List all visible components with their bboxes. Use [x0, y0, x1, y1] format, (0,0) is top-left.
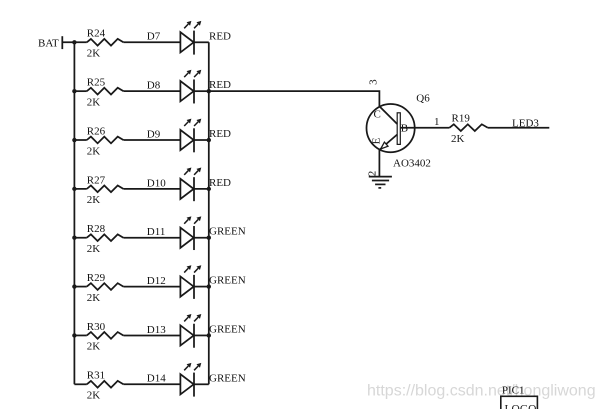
svg-text:D12: D12 — [147, 275, 166, 287]
wire — [378, 150, 380, 177]
svg-text:3: 3 — [367, 79, 379, 85]
LED D7 — [147, 21, 202, 55]
wire — [74, 188, 86, 190]
svg-text:Q6: Q6 — [416, 93, 430, 105]
junction — [72, 333, 76, 337]
svg-text:2K: 2K — [87, 145, 101, 157]
svg-text:GREEN: GREEN — [209, 275, 246, 287]
resistor R25 — [87, 77, 124, 109]
wire — [194, 139, 209, 141]
resistor R30 — [87, 321, 124, 353]
svg-text:D13: D13 — [147, 324, 166, 336]
LED D14 — [147, 363, 202, 397]
junction — [207, 89, 211, 93]
junction — [207, 333, 211, 337]
svg-text:C: C — [374, 109, 381, 121]
svg-text:R27: R27 — [87, 174, 106, 186]
wire — [194, 237, 209, 239]
resistor R28 — [87, 223, 124, 255]
svg-text:LOGO: LOGO — [505, 403, 537, 409]
svg-text:R19: R19 — [452, 112, 471, 124]
svg-text:GREEN: GREEN — [209, 323, 246, 335]
svg-text:RED: RED — [209, 177, 231, 189]
wire — [74, 90, 86, 92]
svg-text:2: 2 — [366, 171, 378, 177]
svg-text:2K: 2K — [87, 96, 101, 108]
svg-text:AO3402: AO3402 — [393, 158, 431, 170]
junction — [72, 138, 76, 142]
wire — [194, 188, 209, 190]
svg-text:2K: 2K — [87, 243, 101, 255]
wire — [123, 90, 180, 92]
junction — [72, 89, 76, 93]
wire — [123, 334, 180, 336]
svg-text:2K: 2K — [87, 292, 101, 304]
wire — [123, 139, 180, 141]
resistor R27 — [87, 174, 124, 206]
svg-text:RED: RED — [209, 128, 231, 140]
junction — [72, 284, 76, 288]
wire — [488, 127, 550, 129]
LED D11 — [147, 216, 202, 250]
svg-text:D8: D8 — [147, 80, 161, 92]
wire — [400, 127, 449, 129]
wire — [123, 383, 180, 385]
svg-text:2K: 2K — [451, 133, 465, 145]
svg-text:2K: 2K — [87, 48, 101, 60]
wire — [194, 334, 209, 336]
wire — [123, 286, 180, 288]
svg-text:D14: D14 — [147, 373, 166, 385]
svg-text:LED3: LED3 — [512, 117, 539, 129]
wire left bus — [73, 42, 75, 384]
svg-text:RED: RED — [209, 30, 231, 42]
resistor R24 — [87, 28, 124, 60]
svg-text:PIC1: PIC1 — [502, 385, 525, 397]
svg-text:BAT: BAT — [38, 37, 59, 49]
junction — [207, 284, 211, 288]
svg-text:1: 1 — [434, 116, 440, 128]
junction — [207, 187, 211, 191]
wire — [194, 90, 209, 92]
svg-text:D9: D9 — [147, 128, 161, 140]
svg-text:R26: R26 — [87, 125, 106, 137]
wire — [62, 41, 87, 43]
svg-text:R29: R29 — [87, 272, 106, 284]
svg-text:RED: RED — [209, 79, 231, 91]
LED D10 — [147, 167, 202, 201]
wire — [74, 334, 86, 336]
ground — [369, 177, 392, 188]
wire — [123, 41, 180, 43]
wire — [194, 383, 209, 385]
svg-text:R31: R31 — [87, 370, 105, 382]
wire — [194, 41, 209, 43]
wire — [74, 383, 86, 385]
transistor Q6 — [367, 93, 431, 170]
svg-text:2K: 2K — [87, 341, 101, 353]
LED D9 — [147, 119, 202, 153]
wire — [123, 237, 180, 239]
wire — [74, 237, 86, 239]
node BAT — [38, 36, 62, 49]
wire — [74, 139, 86, 141]
svg-text:GREEN: GREEN — [209, 226, 246, 238]
resistor R19 — [450, 112, 488, 145]
wire right bus — [208, 42, 210, 384]
junction — [72, 187, 76, 191]
svg-text:D7: D7 — [147, 31, 161, 43]
svg-text:D11: D11 — [147, 226, 166, 238]
junction — [72, 236, 76, 240]
wire to Q6 — [209, 91, 380, 107]
LED D13 — [147, 314, 202, 348]
svg-text:R28: R28 — [87, 223, 106, 235]
wire — [123, 188, 180, 190]
svg-text:R30: R30 — [87, 321, 106, 333]
junction — [72, 40, 76, 44]
svg-text:E: E — [370, 137, 382, 144]
junction — [207, 138, 211, 142]
svg-text:GREEN: GREEN — [209, 372, 246, 384]
wire — [194, 286, 209, 288]
wire — [74, 286, 86, 288]
junction — [207, 236, 211, 240]
svg-text:D10: D10 — [147, 177, 166, 189]
svg-text:https://blog.csdn.net/hongliwo: https://blog.csdn.net/hongliwong — [367, 383, 596, 400]
LED D12 — [147, 265, 202, 299]
svg-text:R24: R24 — [87, 28, 106, 40]
svg-text:R25: R25 — [87, 77, 106, 89]
svg-text:2K: 2K — [87, 194, 101, 206]
resistor R29 — [87, 272, 124, 304]
LED D8 — [147, 70, 202, 104]
svg-text:2K: 2K — [87, 390, 101, 402]
resistor R26 — [87, 125, 124, 157]
component PIC1 LOGO — [501, 385, 538, 409]
resistor R31 — [87, 370, 124, 402]
